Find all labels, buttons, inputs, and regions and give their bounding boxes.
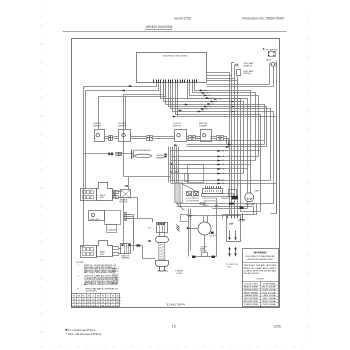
door lock lever (diagonal) [182, 184, 199, 193]
svg-text:BK: BK [78, 306, 80, 308]
diagram border frame [72, 39, 280, 308]
svg-text:PUR 18GA: PUR 18GA [263, 303, 277, 306]
lock switch labels [187, 197, 230, 207]
svg-text:ORANGE WIRE: ORANGE WIRE [244, 294, 259, 297]
scan artifact dotted line bottom [41, 346, 303, 347]
arrow below lock switch S3 [174, 144, 178, 146]
oven temp sensor RT1 [108, 150, 165, 160]
connector pair left of relay [114, 191, 121, 198]
wire runs upper triple [187, 140, 265, 142]
supply drop arrows below box [228, 247, 237, 257]
wire bus run B4 pin to right column [169, 83, 267, 147]
top right lamp bulb DS1 [269, 63, 276, 67]
svg-text:TN: TN [117, 306, 119, 308]
warning box [243, 249, 279, 307]
svg-text:AFTER SERVICING.: AFTER SERVICING. [84, 283, 119, 286]
svg-text:<NOTE>: <NOTE> [256, 277, 265, 280]
svg-text:TN: TN [83, 302, 85, 304]
motor bottom wire [193, 256, 217, 258]
connector J1 between S1 and S2 [109, 136, 113, 141]
wire across above motor [187, 215, 227, 217]
wire stub to oven light switch [99, 97, 126, 130]
motor stub to capacitor [204, 235, 206, 253]
cord hatched cable [159, 243, 166, 261]
plug body [156, 261, 169, 267]
motor top wires [203, 216, 205, 223]
svg-text:11/06: 11/06 [273, 325, 281, 329]
svg-text:GN: GN [87, 302, 89, 304]
broil element body [97, 183, 113, 201]
svg-text:3194178P4: 3194178P4 [166, 302, 185, 306]
strain relief [156, 237, 169, 243]
wire lock-area run M8 [171, 183, 277, 185]
door lever lower diagonal [177, 204, 185, 211]
svg-text:COMPLY WITH THE KIT INSTALL: COMPLY WITH THE KIT INSTALL [244, 269, 277, 272]
svg-text:GY: GY [92, 299, 94, 301]
svg-text:NOTES: NOTES [76, 262, 84, 264]
wire label arrow SN [121, 90, 125, 92]
convection motor M1 [198, 222, 214, 235]
svg-text:MOTOR: MOTOR [200, 250, 208, 252]
svg-text:3E: 3E [222, 169, 224, 171]
vent switch component [236, 64, 241, 81]
svg-text:NEON: NEON [266, 60, 272, 62]
arrow on relay feed [124, 185, 128, 187]
svg-text:OVEN LIGHT: OVEN LIGHT [90, 219, 100, 221]
svg-text:RELAY KIT: RELAY KIT [244, 64, 253, 67]
lock motor connector strip [203, 186, 223, 193]
supply wires from U1 right edge to terminal block [207, 73, 230, 216]
relay drop wire right [131, 198, 138, 219]
wire bus run B6 pin to right column [173, 83, 274, 204]
oven light switch body [89, 211, 105, 221]
latch box below lock [181, 215, 189, 222]
conv fan connector [125, 213, 127, 221]
svg-text:BK: BK [92, 302, 94, 304]
wire pin run R3 to staircase column [190, 83, 259, 157]
wire bus run B1 pin to right column [161, 83, 241, 212]
svg-text:KILLER STEPS.: KILLER STEPS. [244, 273, 261, 275]
wire pin run R2 to staircase column [193, 83, 256, 161]
wire lock-area run M6 [171, 173, 244, 175]
svg-text:WH: WH [97, 302, 100, 304]
wiring legend table [72, 294, 121, 308]
lamp drop wires right side [269, 67, 271, 85]
wire bus run B7 pin to right column [176, 83, 261, 212]
svg-text:3H: 3H [222, 183, 224, 185]
lock switch contact box 1 [187, 192, 193, 197]
svg-text:YL: YL [92, 296, 94, 298]
motor feed wire with arrow [187, 228, 199, 230]
svg-text:GN: GN [73, 306, 75, 308]
svg-text:YL: YL [97, 306, 99, 308]
vent switch riser wires [232, 63, 235, 76]
scan artifact dotted line right [308, 11, 309, 336]
wire lock-area run M5 [171, 168, 248, 170]
svg-text:TO LAMP SW: TO LAMP SW [266, 48, 278, 51]
svg-text:YELLOW WIRE: YELLOW WIRE [244, 298, 259, 300]
svg-text:ALL MODELS.: ALL MODELS. [86, 289, 97, 292]
lock switch contact box 2 [194, 192, 199, 197]
lock switch S3 [173, 123, 187, 141]
junction box label [226, 264, 239, 268]
svg-text:* Non-Illustrated Parts: * Non-Illustrated Parts [65, 332, 102, 336]
svg-text:OVEN TEMP SENSOR: OVEN TEMP SENSOR [134, 150, 152, 152]
plug prongs [159, 267, 166, 271]
svg-text:BK: BK [107, 299, 109, 301]
wire pin run R4 to staircase column [188, 83, 248, 169]
vertical wire to relay and loop [124, 176, 171, 178]
switch row interconnect wires [105, 137, 229, 147]
svg-text:GN: GN [102, 299, 104, 301]
oven light switch S1 [93, 123, 105, 141]
connector marks on motor bottom wire [192, 256, 196, 258]
svg-text:YL: YL [78, 299, 80, 301]
broil element terminals grid [81, 189, 97, 201]
svg-text:SWITCH: SWITCH [118, 126, 127, 128]
connector mark below lamp [240, 207, 244, 209]
vent switch label [244, 70, 255, 75]
broil terminals right [113, 191, 122, 199]
svg-text:WH: WH [82, 306, 85, 308]
junction node at lock bundle [170, 171, 172, 173]
conv fan wires right [127, 215, 134, 251]
svg-text:OVEN LAMP: OVEN LAMP [245, 203, 256, 206]
top right lamp terminal block [268, 52, 276, 57]
svg-text:PU: PU [73, 302, 75, 304]
convection fan housing [105, 211, 121, 233]
svg-text:SERVICING WIRING UNIT: SERVICING WIRING UNIT [247, 259, 274, 261]
svg-text:(DOOR SHOWN: (DOOR SHOWN [187, 200, 200, 202]
wire lock-area run M2 [171, 156, 259, 158]
top right surface light label [263, 48, 278, 51]
svg-text:AMP: AMP [229, 223, 234, 226]
loop wires to terminal block [124, 199, 156, 259]
svg-text:RD 12GA: RD 12GA [263, 291, 277, 294]
wire pin4 to lock relay column [124, 83, 164, 177]
svg-text:POWER CORD: POWER CORD [157, 271, 169, 273]
svg-text:2F: 2F [203, 111, 205, 113]
scan artifact dotted line left [41, 7, 42, 341]
svg-text:GY: GY [78, 302, 80, 304]
svg-text:BROWN WIRE: BROWN WIRE [244, 301, 259, 303]
motor label and capacitor [200, 246, 208, 256]
wire lock-area run M7 [171, 180, 271, 182]
oven lamp feed wires [247, 169, 249, 194]
svg-text:HARNESS: HARNESS [157, 156, 166, 159]
svg-text:2E: 2E [206, 109, 208, 111]
wire below oven lamp [247, 202, 249, 209]
wire bus run B5 pin to right column [171, 83, 271, 181]
wire pin5 to door switch column [126, 83, 166, 130]
svg-text:WH: WH [78, 296, 81, 298]
svg-text:PURPLE WIRE: PURPLE WIRE [244, 304, 259, 306]
svg-text:GY: GY [112, 306, 114, 308]
svg-text:WIRING DIAGRAM: WIRING DIAGRAM [146, 25, 173, 29]
vent relay label [244, 62, 255, 67]
wire run to right columns y211 [241, 211, 261, 213]
svg-text:BK: BK [73, 296, 75, 298]
wire lock-area run M4 [171, 164, 251, 166]
motor ground mark [177, 225, 180, 232]
bake element terminals grid [81, 246, 97, 258]
svg-text:NOTE 3: NOTE 3 [210, 236, 216, 238]
oven sensor wire from left column [84, 153, 109, 155]
connector J3 between S3 and S4 [189, 136, 196, 141]
svg-text:3F: 3F [222, 173, 224, 175]
svg-text:SWITCH: SWITCH [244, 73, 252, 75]
svg-text:BLK 14GA: BLK 14GA [263, 286, 277, 289]
oven lamp DS2 [245, 189, 260, 206]
svg-text:AS THE ORIGINAL WIRE.: AS THE ORIGINAL WIRE. [84, 271, 117, 274]
connector marks on lock wires [232, 196, 239, 200]
svg-text:1B: 1B [207, 93, 209, 95]
U1 connector pin row [154, 80, 197, 83]
svg-text:ORN 16GA: ORN 16GA [263, 294, 277, 297]
svg-text:WARNING: WARNING [254, 251, 267, 255]
connector J4 right of S4 [217, 136, 224, 141]
door lock harness hatched bundle [175, 183, 183, 203]
bus arrows and wire labels right cluster [214, 98, 218, 100]
svg-text:2B: 2B [215, 101, 217, 103]
bake element body [97, 241, 113, 257]
door lock relay K1 [120, 190, 131, 204]
svg-text:WH: WH [111, 299, 114, 301]
connector mark on TB wire [137, 244, 140, 246]
footer functional parts legend [65, 328, 102, 336]
label left of terminal box [210, 233, 216, 237]
terminal block TB2 [121, 244, 131, 260]
lock area lower wires [177, 203, 274, 219]
header rule line [63, 31, 287, 33]
svg-text:3 WIRE: 3 WIRE [175, 271, 183, 273]
svg-text:PU: PU [87, 299, 89, 301]
lock motor end cap [229, 190, 237, 197]
infinite switch S4 [199, 123, 212, 141]
lock motor body [202, 194, 234, 197]
wire pin run R1 to staircase column [195, 83, 251, 165]
svg-text:GN: GN [116, 296, 118, 298]
bus arrows mid-left [185, 104, 189, 106]
door switch S2 [118, 123, 131, 141]
door lock switch housing [188, 165, 204, 183]
far right long wire near frame [271, 61, 277, 214]
cord neck lines [160, 233, 165, 237]
line arrows inside terminal box [228, 231, 237, 241]
chassis ground symbol [238, 214, 245, 222]
arrow at strain relief [147, 240, 151, 242]
title WIRING DIAGRAM [146, 25, 173, 29]
svg-text:WIRE PULL CHART AND COMPLY: WIRE PULL CHART AND COMPLY [244, 267, 278, 270]
svg-text:15: 15 [172, 324, 176, 328]
wire lock-area run M1 [171, 150, 261, 152]
wire label arrow BR [127, 85, 131, 87]
connector circles on lower wires [200, 202, 234, 207]
svg-text:PU: PU [107, 306, 109, 308]
notes block [76, 262, 119, 292]
wire pin1 to bake element feed [84, 83, 157, 247]
right vertical to motor circuit [216, 199, 218, 257]
bake terminals right [113, 247, 122, 256]
wire bus run B3 pin to right column [166, 83, 265, 145]
svg-text:UNLOCK POS): UNLOCK POS) [204, 200, 216, 202]
lock bundle verticals [169, 147, 179, 183]
inline connector on lock feed [164, 154, 166, 156]
svg-text:SWITCH: SWITCH [173, 126, 182, 128]
warning color code table [243, 282, 279, 308]
bus arrows second cluster [231, 101, 235, 103]
power cord top connector [157, 223, 168, 233]
wire lock-area run M3 [171, 160, 256, 162]
svg-text:GY: GY [107, 296, 109, 298]
svg-text:3B: 3B [222, 156, 224, 158]
wire bus run B8 pin to right column [178, 83, 277, 214]
svg-text:Publication No. 5995478467: Publication No. 5995478467 [242, 16, 285, 20]
supply terminal box TB1 [227, 216, 241, 242]
svg-text:GLGF375D: GLGF375D [174, 16, 192, 20]
svg-text:TRACE RED, WHT AND CALR WIRE: TRACE RED, WHT AND CALR WIRE [244, 264, 278, 267]
wire bus run B2 pin to right column [164, 83, 244, 174]
svg-text:TN: TN [112, 296, 114, 298]
svg-text:SWITCH: SWITCH [93, 126, 102, 128]
door lock plunger box [185, 174, 189, 182]
svg-text:TN: TN [97, 299, 99, 301]
electronic oven control U1 [137, 53, 207, 83]
small label above part number [175, 271, 183, 275]
wire pin2 to broil element feed [86, 83, 159, 184]
bake feed wire top [81, 246, 84, 248]
connector J2 between S2 and S3 [147, 136, 153, 141]
wire code legend stack [113, 268, 119, 285]
svg-text:CAM SW: CAM SW [221, 197, 229, 200]
svg-text:YL: YL [112, 302, 114, 304]
svg-text:PU: PU [102, 296, 104, 298]
broil feed wire top [85, 184, 87, 189]
left drop wires to motor bottom [188, 209, 190, 257]
svg-text:20 AMP: 20 AMP [199, 125, 208, 128]
wires to top-right lamp drops [207, 84, 270, 86]
svg-text:ELECTRONIC OVEN CONTROL: ELECTRONIC OVEN CONTROL [163, 55, 189, 57]
svg-text:BLACK WIRE: BLACK WIRE [244, 286, 259, 289]
arrow on lock feed wire [169, 163, 173, 165]
svg-text:WHT 14GA: WHT 14GA [263, 288, 277, 291]
